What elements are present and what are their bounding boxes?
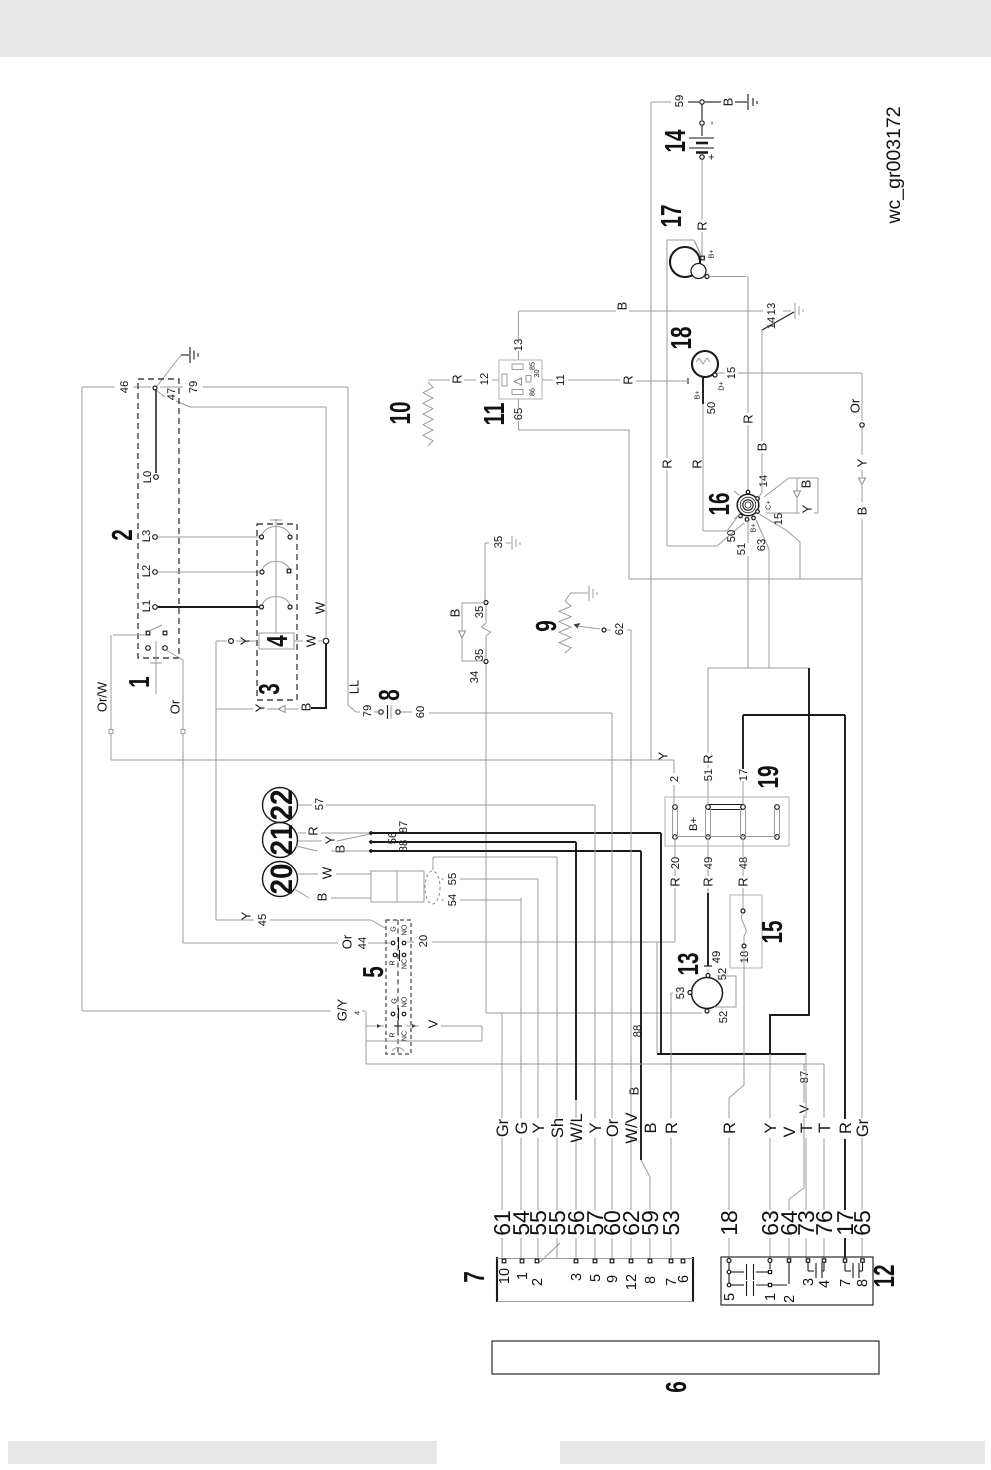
- svg-text:8: 8: [374, 689, 406, 701]
- svg-text:B: B: [721, 98, 736, 107]
- svg-text:Y: Y: [855, 458, 870, 467]
- svg-text:50: 50: [726, 530, 738, 542]
- svg-text:W: W: [320, 866, 335, 879]
- svg-text:35: 35: [493, 536, 505, 548]
- svg-text:Y: Y: [587, 1122, 605, 1133]
- svg-text:87: 87: [398, 821, 410, 833]
- svg-text:Y: Y: [656, 751, 671, 760]
- svg-text:R: R: [450, 374, 465, 383]
- svg-text:10: 10: [497, 1268, 513, 1284]
- svg-text:65: 65: [849, 1210, 875, 1236]
- svg-text:15: 15: [773, 513, 785, 525]
- svg-text:W/V: W/V: [623, 1112, 641, 1143]
- svg-text:V: V: [781, 1126, 799, 1137]
- svg-text:88: 88: [632, 1025, 644, 1037]
- svg-text:Or: Or: [168, 699, 183, 714]
- svg-text:3: 3: [569, 1273, 585, 1281]
- svg-text:R: R: [660, 459, 675, 468]
- svg-text:14: 14: [758, 475, 770, 487]
- svg-text:17: 17: [738, 769, 750, 781]
- svg-text:18: 18: [666, 327, 698, 350]
- svg-text:Y: Y: [762, 1122, 780, 1133]
- svg-text:4: 4: [817, 1280, 833, 1288]
- svg-text:B: B: [799, 480, 814, 489]
- svg-text:53: 53: [658, 1210, 684, 1236]
- svg-text:R: R: [668, 877, 683, 886]
- svg-text:45: 45: [257, 914, 269, 926]
- svg-text:6: 6: [676, 1275, 692, 1283]
- svg-text:49: 49: [703, 857, 715, 869]
- svg-text:Or: Or: [340, 934, 355, 949]
- svg-text:L0: L0: [142, 471, 154, 483]
- svg-text:B+: B+: [688, 817, 700, 831]
- svg-text:62: 62: [614, 623, 626, 635]
- svg-text:14: 14: [660, 130, 692, 153]
- svg-text:47: 47: [166, 388, 178, 400]
- svg-text:+: +: [706, 154, 718, 161]
- svg-text:4: 4: [353, 1011, 362, 1015]
- svg-text:W: W: [313, 601, 328, 614]
- svg-text:R: R: [721, 1122, 739, 1134]
- svg-text:11: 11: [479, 403, 511, 426]
- svg-text:Y: Y: [323, 835, 338, 844]
- svg-text:C+: C+: [764, 500, 773, 509]
- svg-text:B+: B+: [749, 524, 758, 533]
- svg-text:12: 12: [869, 1265, 901, 1288]
- svg-text:85: 85: [528, 362, 537, 370]
- svg-text:35: 35: [474, 606, 486, 618]
- svg-text:B: B: [615, 302, 630, 311]
- svg-text:52: 52: [717, 968, 729, 980]
- svg-text:B: B: [315, 893, 330, 902]
- svg-text:R: R: [695, 221, 710, 230]
- svg-text:V: V: [797, 1104, 812, 1113]
- svg-text:D+: D+: [717, 381, 726, 390]
- svg-text:V: V: [426, 1019, 441, 1028]
- svg-text:50: 50: [706, 402, 718, 414]
- svg-text:R: R: [388, 1032, 397, 1037]
- svg-text:86: 86: [528, 388, 537, 396]
- svg-text:2: 2: [669, 776, 681, 782]
- svg-text:13: 13: [766, 303, 778, 315]
- svg-text:7: 7: [838, 1279, 854, 1287]
- svg-text:21: 21: [264, 825, 299, 856]
- svg-text:4: 4: [262, 635, 294, 647]
- svg-text:Or/W: Or/W: [95, 681, 110, 712]
- svg-text:9: 9: [605, 1275, 621, 1283]
- svg-text:R: R: [736, 877, 751, 886]
- svg-text:35: 35: [474, 649, 486, 661]
- svg-text:87: 87: [799, 1071, 811, 1083]
- svg-text:57: 57: [314, 798, 326, 810]
- svg-text:Gr: Gr: [854, 1118, 872, 1137]
- svg-text:51: 51: [703, 769, 715, 781]
- svg-text:52: 52: [718, 1011, 730, 1023]
- svg-text:R: R: [621, 375, 636, 384]
- svg-text:30: 30: [532, 370, 541, 378]
- svg-text:63: 63: [756, 539, 768, 551]
- svg-text:W/L: W/L: [568, 1113, 586, 1142]
- svg-text:B+: B+: [693, 391, 702, 400]
- svg-text:B: B: [333, 845, 348, 854]
- svg-text:NO: NO: [400, 924, 409, 935]
- svg-text:R: R: [388, 960, 397, 965]
- svg-text:Or: Or: [604, 1118, 622, 1137]
- svg-text:79: 79: [362, 705, 374, 717]
- svg-text:5: 5: [358, 966, 390, 978]
- svg-text:5: 5: [588, 1274, 604, 1282]
- svg-text:Y: Y: [253, 703, 268, 712]
- svg-text:48: 48: [738, 857, 750, 869]
- svg-text:49: 49: [711, 951, 723, 963]
- svg-text:B: B: [448, 609, 463, 618]
- svg-text:R: R: [663, 1122, 681, 1134]
- svg-text:B: B: [755, 443, 770, 452]
- svg-text:Gr: Gr: [494, 1118, 512, 1137]
- svg-text:79: 79: [188, 381, 200, 393]
- svg-text:19: 19: [753, 766, 785, 789]
- svg-text:8: 8: [855, 1279, 871, 1287]
- svg-text:W: W: [304, 634, 319, 647]
- svg-text:44: 44: [357, 937, 369, 949]
- svg-text:20: 20: [264, 864, 299, 895]
- svg-text:5: 5: [722, 1293, 738, 1301]
- svg-text:3: 3: [801, 1278, 817, 1286]
- svg-text:B: B: [627, 1087, 642, 1096]
- svg-text:18: 18: [739, 951, 751, 963]
- svg-text:G: G: [390, 998, 399, 1004]
- svg-text:11: 11: [555, 374, 567, 386]
- svg-text:17: 17: [656, 205, 688, 228]
- svg-text:3: 3: [254, 683, 286, 695]
- svg-text:15: 15: [726, 367, 738, 379]
- svg-text:R: R: [837, 1122, 855, 1134]
- svg-text:53: 53: [675, 987, 687, 999]
- svg-text:13: 13: [673, 953, 705, 976]
- svg-text:Y: Y: [239, 911, 254, 920]
- svg-text:G/Y: G/Y: [335, 998, 350, 1021]
- svg-text:LL: LL: [347, 680, 362, 694]
- svg-text:18: 18: [716, 1210, 742, 1236]
- svg-text:2: 2: [530, 1278, 546, 1286]
- svg-text:16: 16: [704, 493, 736, 516]
- svg-text:34: 34: [469, 671, 481, 683]
- svg-text:54: 54: [447, 894, 459, 906]
- svg-text:T: T: [798, 1123, 816, 1133]
- svg-text:2: 2: [782, 1295, 798, 1303]
- svg-text:65: 65: [513, 408, 525, 420]
- svg-text:T: T: [816, 1123, 834, 1133]
- svg-text:55: 55: [447, 873, 459, 885]
- svg-text:1: 1: [763, 1293, 779, 1301]
- svg-text:59: 59: [674, 95, 686, 107]
- svg-text:51: 51: [736, 543, 748, 555]
- svg-text:Sh: Sh: [549, 1118, 567, 1138]
- svg-text:1: 1: [124, 676, 156, 688]
- svg-text:L1: L1: [141, 600, 153, 612]
- svg-text:Y: Y: [238, 636, 253, 645]
- svg-text:NC: NC: [400, 959, 409, 969]
- svg-text:10: 10: [385, 402, 417, 425]
- svg-text:B: B: [855, 507, 870, 516]
- svg-text:G: G: [513, 1122, 531, 1135]
- svg-text:8: 8: [643, 1276, 659, 1284]
- svg-text:R: R: [306, 826, 321, 835]
- svg-text:L3: L3: [141, 530, 153, 542]
- svg-text:13: 13: [513, 339, 525, 351]
- svg-text:B+: B+: [707, 250, 716, 259]
- svg-text:L2: L2: [141, 565, 153, 577]
- svg-text:B: B: [299, 703, 314, 712]
- svg-text:20: 20: [418, 935, 430, 947]
- svg-text:7: 7: [459, 1271, 491, 1283]
- svg-text:R: R: [701, 754, 716, 763]
- svg-text:G: G: [389, 926, 398, 932]
- svg-text:15: 15: [757, 921, 789, 944]
- svg-text:-: -: [706, 121, 718, 125]
- svg-text:2: 2: [107, 529, 139, 541]
- svg-text:12: 12: [479, 373, 491, 385]
- svg-text:NC: NC: [400, 1031, 409, 1041]
- svg-text:R: R: [690, 459, 705, 468]
- svg-text:Or: Or: [848, 398, 863, 413]
- svg-text:6: 6: [661, 1381, 693, 1393]
- svg-text:wc_gr003172: wc_gr003172: [883, 106, 905, 224]
- svg-text:R: R: [741, 414, 756, 423]
- svg-text:NO: NO: [400, 996, 409, 1007]
- svg-text:Y: Y: [530, 1122, 548, 1133]
- svg-text:Y: Y: [800, 504, 815, 513]
- svg-text:R: R: [701, 877, 716, 886]
- svg-text:60: 60: [415, 706, 427, 718]
- svg-text:20: 20: [670, 857, 682, 869]
- svg-text:46: 46: [119, 381, 131, 393]
- svg-text:B: B: [642, 1122, 660, 1133]
- svg-text:1: 1: [515, 1272, 531, 1280]
- svg-text:12: 12: [624, 1274, 640, 1290]
- svg-text:22: 22: [264, 790, 299, 821]
